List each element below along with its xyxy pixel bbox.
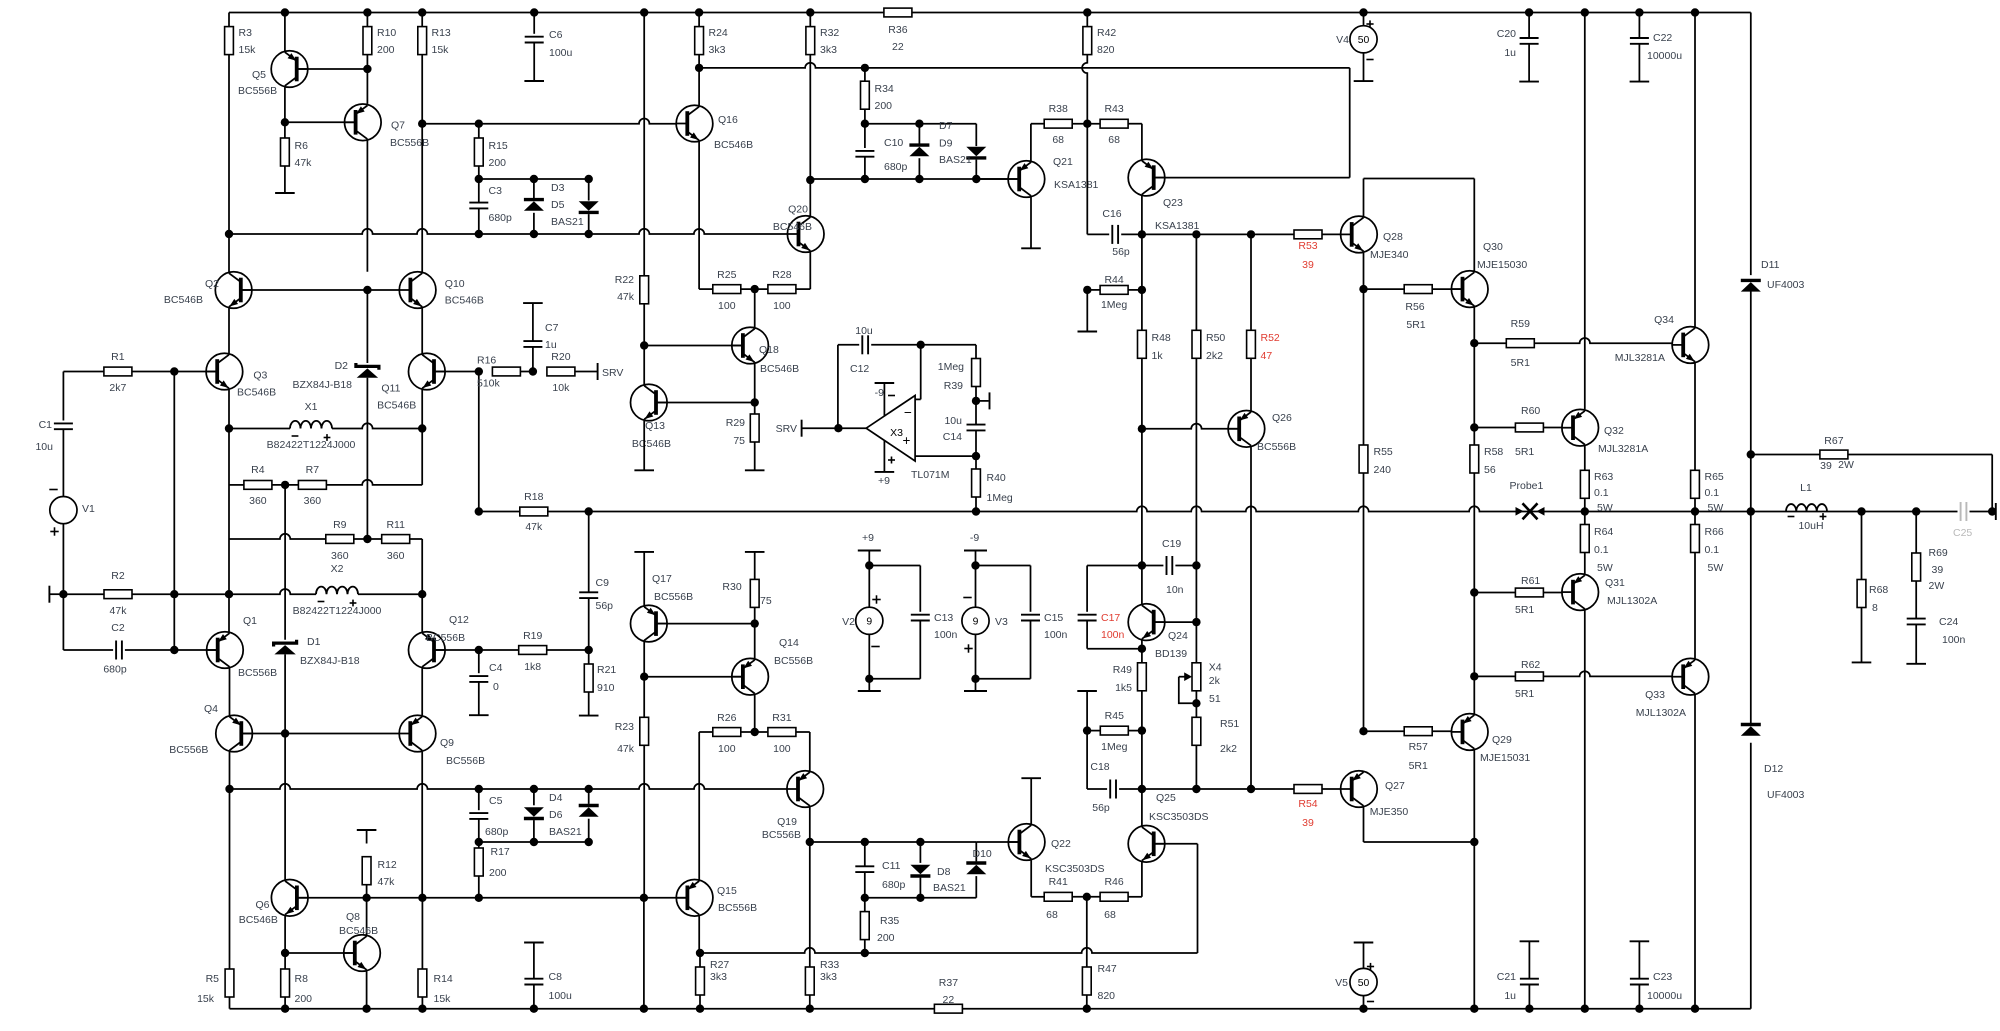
svg-text:V2: V2 <box>842 616 855 628</box>
svg-text:BC556B: BC556B <box>426 632 465 644</box>
svg-text:BC546B: BC546B <box>339 925 378 937</box>
svg-text:Q30: Q30 <box>1483 241 1503 253</box>
svg-text:56: 56 <box>1484 464 1496 476</box>
svg-text:R69: R69 <box>1929 547 1948 559</box>
svg-text:R67: R67 <box>1824 435 1843 447</box>
svg-text:V5: V5 <box>1335 977 1348 989</box>
svg-text:R65: R65 <box>1705 471 1724 483</box>
svg-text:D7: D7 <box>939 120 953 132</box>
svg-text:0.1: 0.1 <box>1594 544 1609 556</box>
svg-text:V3: V3 <box>995 616 1008 628</box>
svg-text:3k3: 3k3 <box>709 44 726 56</box>
svg-text:R33: R33 <box>820 959 839 971</box>
svg-text:BC546B: BC546B <box>773 221 812 233</box>
svg-text:R18: R18 <box>524 491 543 503</box>
svg-text:BC556B: BC556B <box>238 667 277 679</box>
svg-text:BC546B: BC546B <box>632 438 671 450</box>
svg-text:R66: R66 <box>1705 526 1724 538</box>
svg-text:Q16: Q16 <box>718 114 738 126</box>
svg-text:3k3: 3k3 <box>820 971 837 983</box>
svg-text:R8: R8 <box>295 973 309 985</box>
svg-text:0: 0 <box>493 681 499 693</box>
svg-text:Q29: Q29 <box>1492 734 1512 746</box>
svg-text:15k: 15k <box>239 44 257 56</box>
svg-text:Q8: Q8 <box>346 911 360 923</box>
svg-text:R36: R36 <box>888 24 907 36</box>
svg-text:MJL1302A: MJL1302A <box>1607 595 1657 607</box>
svg-text:1Meg: 1Meg <box>987 492 1013 504</box>
svg-text:C11: C11 <box>882 860 901 872</box>
svg-text:39: 39 <box>1302 817 1314 829</box>
svg-text:240: 240 <box>1374 464 1392 476</box>
svg-text:R5: R5 <box>206 973 220 985</box>
svg-text:R27: R27 <box>710 959 729 971</box>
svg-text:BC546B: BC546B <box>237 387 276 399</box>
svg-text:10u: 10u <box>944 415 962 427</box>
svg-text:200: 200 <box>489 867 507 879</box>
svg-text:R58: R58 <box>1484 446 1503 458</box>
svg-text:2W: 2W <box>1838 459 1854 471</box>
svg-text:R9: R9 <box>333 519 347 531</box>
svg-text:BC556B: BC556B <box>238 85 277 97</box>
svg-text:Q19: Q19 <box>777 816 797 828</box>
svg-text:D3: D3 <box>551 182 565 194</box>
svg-text:R16: R16 <box>477 355 496 367</box>
svg-text:R64: R64 <box>1594 526 1613 538</box>
svg-text:R52: R52 <box>1261 332 1280 344</box>
svg-text:R51: R51 <box>1220 718 1239 730</box>
svg-text:BC546B: BC546B <box>239 914 278 926</box>
svg-text:C4: C4 <box>489 662 503 674</box>
svg-text:R50: R50 <box>1206 332 1225 344</box>
svg-text:MJE15031: MJE15031 <box>1480 752 1530 764</box>
svg-text:0.1: 0.1 <box>1594 487 1609 499</box>
svg-text:3k3: 3k3 <box>710 971 727 983</box>
svg-text:BD139: BD139 <box>1155 648 1187 660</box>
svg-text:KSC3503DS: KSC3503DS <box>1149 811 1209 823</box>
svg-text:R13: R13 <box>432 27 451 39</box>
svg-text:R44: R44 <box>1104 274 1123 286</box>
svg-text:R57: R57 <box>1409 741 1428 753</box>
svg-text:200: 200 <box>295 993 313 1005</box>
svg-text:680p: 680p <box>489 212 513 224</box>
svg-text:5W: 5W <box>1597 502 1613 514</box>
svg-text:1Meg: 1Meg <box>1101 741 1127 753</box>
svg-text:SRV: SRV <box>776 423 797 435</box>
svg-text:R19: R19 <box>523 630 542 642</box>
svg-text:100n: 100n <box>1044 629 1068 641</box>
svg-text:5R1: 5R1 <box>1406 319 1425 331</box>
svg-text:5W: 5W <box>1708 502 1724 514</box>
svg-text:BAS21: BAS21 <box>549 826 582 838</box>
svg-text:Q34: Q34 <box>1654 314 1674 326</box>
svg-text:R28: R28 <box>772 269 791 281</box>
svg-text:1Meg: 1Meg <box>938 361 964 373</box>
svg-text:56p: 56p <box>1092 802 1110 814</box>
svg-text:TL071M: TL071M <box>911 469 950 481</box>
svg-text:10u: 10u <box>855 325 873 337</box>
svg-text:Q6: Q6 <box>255 899 269 911</box>
svg-text:10k: 10k <box>552 382 570 394</box>
svg-text:10000u: 10000u <box>1647 50 1682 62</box>
svg-text:SRV: SRV <box>602 367 623 379</box>
svg-text:100n: 100n <box>1101 629 1125 641</box>
svg-text:BC556B: BC556B <box>390 137 429 149</box>
svg-text:100: 100 <box>718 300 736 312</box>
svg-text:680p: 680p <box>485 826 509 838</box>
svg-text:39: 39 <box>1932 564 1944 576</box>
svg-text:Q17: Q17 <box>652 573 672 585</box>
svg-text:2W: 2W <box>1929 580 1945 592</box>
svg-text:Q1: Q1 <box>243 615 257 627</box>
svg-text:22: 22 <box>892 41 904 53</box>
svg-text:Q26: Q26 <box>1272 412 1292 424</box>
svg-text:C14: C14 <box>943 431 962 443</box>
svg-text:R14: R14 <box>434 973 453 985</box>
svg-text:R48: R48 <box>1152 332 1171 344</box>
svg-text:9: 9 <box>866 617 872 628</box>
svg-text:R56: R56 <box>1405 301 1424 313</box>
svg-text:-9: -9 <box>970 532 979 544</box>
svg-text:680p: 680p <box>882 879 906 891</box>
svg-text:Q25: Q25 <box>1156 792 1176 804</box>
svg-text:R68: R68 <box>1869 584 1888 596</box>
svg-text:R1: R1 <box>111 351 125 363</box>
svg-text:200: 200 <box>377 44 395 56</box>
svg-text:BC556B: BC556B <box>654 591 693 603</box>
svg-text:D8: D8 <box>937 866 951 878</box>
svg-text:15k: 15k <box>197 993 215 1005</box>
svg-text:100n: 100n <box>934 629 958 641</box>
svg-text:BC556B: BC556B <box>169 744 208 756</box>
svg-text:Q32: Q32 <box>1604 425 1624 437</box>
svg-text:MJL1302A: MJL1302A <box>1636 707 1686 719</box>
svg-text:8: 8 <box>1872 602 1878 614</box>
svg-text:KSA1381: KSA1381 <box>1155 220 1200 232</box>
svg-text:KSA1381: KSA1381 <box>1054 179 1099 191</box>
svg-text:100u: 100u <box>549 47 573 59</box>
svg-text:X1: X1 <box>305 401 318 413</box>
svg-text:R17: R17 <box>491 846 510 858</box>
svg-text:5W: 5W <box>1597 562 1613 574</box>
svg-text:BC556B: BC556B <box>718 902 757 914</box>
svg-text:X4: X4 <box>1209 662 1222 674</box>
svg-text:Q18: Q18 <box>759 344 779 356</box>
svg-text:Q7: Q7 <box>391 120 405 132</box>
svg-text:2k2: 2k2 <box>1220 743 1237 755</box>
svg-text:BZX84J-B18: BZX84J-B18 <box>300 655 360 667</box>
svg-text:C25: C25 <box>1953 527 1972 539</box>
svg-text:47k: 47k <box>110 605 128 617</box>
svg-text:5R1: 5R1 <box>1515 688 1534 700</box>
svg-text:820: 820 <box>1097 44 1115 56</box>
svg-text:10u: 10u <box>35 441 53 453</box>
svg-text:Q24: Q24 <box>1168 630 1188 642</box>
svg-text:R55: R55 <box>1374 446 1393 458</box>
svg-text:Q21: Q21 <box>1053 156 1073 168</box>
svg-text:5W: 5W <box>1708 562 1724 574</box>
svg-text:9: 9 <box>973 617 979 628</box>
svg-text:B82422T1224J000: B82422T1224J000 <box>293 605 382 617</box>
svg-text:R26: R26 <box>717 712 736 724</box>
svg-text:51: 51 <box>1209 693 1221 705</box>
svg-text:+9: +9 <box>862 532 874 544</box>
svg-text:68: 68 <box>1052 134 1064 146</box>
svg-text:MJL3281A: MJL3281A <box>1598 443 1648 455</box>
svg-text:10n: 10n <box>1166 584 1184 596</box>
svg-text:R39: R39 <box>944 380 963 392</box>
svg-text:R35: R35 <box>880 915 899 927</box>
svg-text:C23: C23 <box>1653 971 1672 983</box>
svg-text:1k: 1k <box>1152 350 1164 362</box>
svg-text:R49: R49 <box>1113 664 1132 676</box>
svg-text:BC546B: BC546B <box>760 363 799 375</box>
svg-text:1k8: 1k8 <box>524 661 541 673</box>
svg-text:R23: R23 <box>615 721 634 733</box>
svg-text:Q5: Q5 <box>252 69 266 81</box>
svg-text:Probe1: Probe1 <box>1510 480 1544 492</box>
svg-text:5R1: 5R1 <box>1511 357 1530 369</box>
svg-text:MJE15030: MJE15030 <box>1477 259 1527 271</box>
svg-text:V4: V4 <box>1336 34 1349 46</box>
svg-text:360: 360 <box>304 495 322 507</box>
svg-text:R59: R59 <box>1511 318 1530 330</box>
svg-text:200: 200 <box>875 100 893 112</box>
svg-text:-9: -9 <box>875 387 884 399</box>
svg-text:10uH: 10uH <box>1798 520 1823 532</box>
svg-text:D4: D4 <box>549 792 563 804</box>
svg-text:Q9: Q9 <box>440 737 454 749</box>
svg-text:1k5: 1k5 <box>1115 682 1132 694</box>
svg-text:D12: D12 <box>1764 763 1783 775</box>
svg-text:680p: 680p <box>103 664 127 676</box>
svg-text:39: 39 <box>1302 259 1314 271</box>
svg-text:360: 360 <box>387 550 405 562</box>
svg-text:C19: C19 <box>1162 538 1181 550</box>
svg-text:910: 910 <box>597 682 615 694</box>
svg-text:1u: 1u <box>545 339 557 351</box>
svg-text:V1: V1 <box>82 503 95 515</box>
svg-text:0.1: 0.1 <box>1705 544 1720 556</box>
svg-text:C17: C17 <box>1101 612 1120 624</box>
svg-text:R45: R45 <box>1105 710 1124 722</box>
svg-text:R40: R40 <box>987 472 1006 484</box>
svg-text:200: 200 <box>877 932 895 944</box>
svg-text:Q20: Q20 <box>788 204 808 216</box>
svg-text:KSC3503DS: KSC3503DS <box>1045 863 1105 875</box>
svg-text:R34: R34 <box>875 83 894 95</box>
svg-text:L1: L1 <box>1800 482 1812 494</box>
svg-text:50: 50 <box>1358 978 1370 989</box>
svg-text:R37: R37 <box>939 977 958 989</box>
svg-text:68: 68 <box>1108 134 1120 146</box>
svg-text:68: 68 <box>1046 909 1058 921</box>
svg-text:+9: +9 <box>878 475 890 487</box>
svg-text:−: − <box>904 405 912 420</box>
svg-text:BAS21: BAS21 <box>551 216 584 228</box>
svg-text:100n: 100n <box>1942 634 1966 646</box>
svg-text:50: 50 <box>1358 35 1370 46</box>
svg-text:C13: C13 <box>934 612 953 624</box>
svg-text:+: + <box>903 433 911 448</box>
svg-text:R12: R12 <box>378 859 397 871</box>
svg-text:Q15: Q15 <box>717 885 737 897</box>
svg-text:Q13: Q13 <box>645 420 665 432</box>
svg-text:BC546B: BC546B <box>377 400 416 412</box>
svg-text:Q23: Q23 <box>1163 197 1183 209</box>
svg-text:C5: C5 <box>489 795 503 807</box>
svg-text:200: 200 <box>489 157 507 169</box>
svg-text:R22: R22 <box>615 274 634 286</box>
svg-text:510k: 510k <box>477 378 501 390</box>
svg-text:2k2: 2k2 <box>1206 350 1223 362</box>
svg-text:BC546B: BC546B <box>445 295 484 307</box>
svg-text:Q12: Q12 <box>449 614 469 626</box>
svg-text:Q3: Q3 <box>253 370 267 382</box>
svg-text:R11: R11 <box>386 519 405 531</box>
svg-text:2k: 2k <box>1209 675 1221 687</box>
svg-text:R53: R53 <box>1298 240 1317 252</box>
svg-text:R29: R29 <box>726 417 745 429</box>
svg-text:Q4: Q4 <box>204 703 218 715</box>
svg-text:C21: C21 <box>1497 971 1516 983</box>
svg-text:Q31: Q31 <box>1605 577 1625 589</box>
svg-text:R30: R30 <box>722 581 741 593</box>
svg-text:C1: C1 <box>39 419 53 431</box>
svg-text:R62: R62 <box>1521 659 1540 671</box>
svg-text:C16: C16 <box>1102 208 1121 220</box>
svg-text:R7: R7 <box>306 464 320 476</box>
svg-text:3k3: 3k3 <box>820 44 837 56</box>
svg-text:5R1: 5R1 <box>1409 760 1428 772</box>
svg-text:R20: R20 <box>551 351 570 363</box>
svg-text:Q22: Q22 <box>1051 838 1071 850</box>
svg-text:R60: R60 <box>1521 405 1540 417</box>
svg-text:C6: C6 <box>549 29 563 41</box>
svg-text:D6: D6 <box>549 809 563 821</box>
svg-text:2k7: 2k7 <box>109 382 126 394</box>
svg-text:15k: 15k <box>432 44 450 56</box>
svg-text:D11: D11 <box>1761 259 1780 271</box>
svg-text:10000u: 10000u <box>1647 990 1682 1002</box>
svg-text:R21: R21 <box>597 664 616 676</box>
svg-text:BC556B: BC556B <box>774 655 813 667</box>
svg-text:C7: C7 <box>545 322 559 334</box>
svg-text:R6: R6 <box>295 140 309 152</box>
svg-text:BC546B: BC546B <box>164 294 203 306</box>
svg-text:47k: 47k <box>378 876 396 888</box>
svg-text:68: 68 <box>1104 909 1116 921</box>
svg-text:X2: X2 <box>331 563 344 575</box>
svg-text:C2: C2 <box>111 622 125 634</box>
svg-text:UF4003: UF4003 <box>1767 789 1805 801</box>
svg-text:X3: X3 <box>890 427 903 439</box>
svg-text:100: 100 <box>773 300 791 312</box>
svg-text:BC556B: BC556B <box>446 755 485 767</box>
svg-text:MJE340: MJE340 <box>1370 249 1409 261</box>
svg-text:75: 75 <box>760 595 772 607</box>
svg-text:D9: D9 <box>939 138 953 150</box>
svg-text:C8: C8 <box>549 971 563 983</box>
svg-text:R41: R41 <box>1049 876 1068 888</box>
svg-text:C18: C18 <box>1090 761 1109 773</box>
svg-text:47k: 47k <box>295 157 313 169</box>
svg-text:5R1: 5R1 <box>1515 604 1534 616</box>
svg-text:360: 360 <box>249 495 267 507</box>
svg-text:C22: C22 <box>1653 32 1672 44</box>
svg-text:R54: R54 <box>1298 798 1317 810</box>
svg-text:47k: 47k <box>617 291 635 303</box>
svg-text:100: 100 <box>718 743 736 755</box>
svg-text:75: 75 <box>733 435 745 447</box>
svg-text:BAS21: BAS21 <box>939 154 972 166</box>
svg-text:Q14: Q14 <box>779 637 799 649</box>
svg-text:56p: 56p <box>596 600 614 612</box>
svg-text:C10: C10 <box>884 137 903 149</box>
svg-text:100u: 100u <box>549 990 573 1002</box>
svg-text:C9: C9 <box>596 577 610 589</box>
svg-text:1u: 1u <box>1504 47 1516 59</box>
svg-text:56p: 56p <box>1112 246 1130 258</box>
svg-text:R46: R46 <box>1104 876 1123 888</box>
svg-text:15k: 15k <box>434 993 452 1005</box>
svg-text:47k: 47k <box>617 743 635 755</box>
svg-text:D1: D1 <box>307 636 321 648</box>
svg-text:0.1: 0.1 <box>1705 487 1720 499</box>
svg-text:R10: R10 <box>377 27 396 39</box>
svg-text:BC556B: BC556B <box>762 829 801 841</box>
svg-text:R32: R32 <box>820 27 839 39</box>
svg-text:C15: C15 <box>1044 612 1063 624</box>
svg-text:Q28: Q28 <box>1383 231 1403 243</box>
svg-text:1Meg: 1Meg <box>1101 299 1127 311</box>
svg-text:D5: D5 <box>551 199 565 211</box>
svg-text:47: 47 <box>1261 350 1273 362</box>
svg-text:39: 39 <box>1820 460 1832 472</box>
svg-text:680p: 680p <box>884 161 908 173</box>
svg-text:C3: C3 <box>489 185 503 197</box>
svg-text:R61: R61 <box>1521 575 1540 587</box>
svg-text:R3: R3 <box>239 27 253 39</box>
svg-text:Q27: Q27 <box>1385 780 1405 792</box>
svg-text:100: 100 <box>773 743 791 755</box>
svg-text:R42: R42 <box>1097 27 1116 39</box>
svg-text:B82422T1224J000: B82422T1224J000 <box>267 439 356 451</box>
svg-text:MJL3281A: MJL3281A <box>1615 352 1665 364</box>
svg-text:BC546B: BC546B <box>714 139 753 151</box>
svg-text:C12: C12 <box>850 363 869 375</box>
svg-text:R43: R43 <box>1104 103 1123 115</box>
svg-text:R2: R2 <box>111 570 125 582</box>
svg-text:1u: 1u <box>1504 990 1516 1002</box>
svg-text:Q2: Q2 <box>205 278 219 290</box>
svg-text:820: 820 <box>1098 990 1116 1002</box>
svg-text:BZX84J-B18: BZX84J-B18 <box>292 379 352 391</box>
svg-text:BAS21: BAS21 <box>933 882 966 894</box>
svg-text:BC556B: BC556B <box>1257 441 1296 453</box>
svg-text:R47: R47 <box>1098 963 1117 975</box>
svg-text:R24: R24 <box>709 27 728 39</box>
svg-text:R15: R15 <box>489 140 508 152</box>
svg-text:C20: C20 <box>1497 28 1516 40</box>
svg-text:R4: R4 <box>251 464 265 476</box>
svg-text:R63: R63 <box>1594 471 1613 483</box>
svg-text:C24: C24 <box>1939 616 1958 628</box>
svg-text:R31: R31 <box>772 712 791 724</box>
svg-text:MJE350: MJE350 <box>1370 806 1409 818</box>
svg-text:D2: D2 <box>335 360 349 372</box>
svg-text:5R1: 5R1 <box>1515 446 1534 458</box>
